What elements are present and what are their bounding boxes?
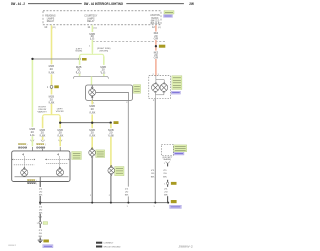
svg-text:1: 1	[127, 206, 128, 208]
bus junction dot lamp1	[91, 202, 93, 204]
svg-text:YL/BK: YL/BK	[39, 135, 46, 137]
svg-text:RIGHT: RIGHT	[39, 106, 47, 108]
svg-text:YL/BK: YL/BK	[108, 135, 115, 137]
svg-text:OR: OR	[154, 58, 159, 60]
right rear lamp dashed box	[161, 145, 173, 156]
svg-text:J988W-2: J988W-2	[8, 245, 17, 247]
svg-text:YL/BK: YL/BK	[48, 102, 55, 104]
svg-text:2: 2	[109, 195, 110, 197]
pin bracket above ground connector	[39, 216, 42, 218]
svg-text:1: 1	[154, 206, 155, 208]
legend row 2	[96, 246, 121, 249]
svg-text:M2B: M2B	[30, 129, 36, 131]
bus junction dot box ground	[127, 202, 129, 204]
svg-text:1: 1	[164, 163, 165, 165]
splice dot right end	[110, 122, 112, 124]
green link ref dome lamp	[172, 76, 182, 90]
dome lamp bulb left	[152, 84, 160, 92]
connector bar drop into lamp box	[91, 76, 93, 85]
green link ref left courtesy lamp	[96, 150, 105, 158]
junction block label READING LAMPS RELAY	[45, 15, 55, 24]
label below right rear lamp box	[163, 157, 174, 161]
green link ref top right	[164, 11, 174, 14]
svg-text:2W: 2W	[189, 2, 194, 6]
visor lamps labels above box cluster 2	[36, 143, 46, 150]
yellow branch wire left	[42, 117, 44, 140]
svg-text:SIDE): SIDE)	[75, 51, 82, 53]
wire label M2 20 OR upper	[154, 33, 160, 40]
svg-text:M2B: M2B	[100, 67, 106, 69]
svg-text:SPLICE GROUND: SPLICE GROUND	[104, 246, 122, 248]
branch label LEFT VISOR	[56, 109, 64, 114]
wire label M1 20 YL lower	[48, 96, 55, 104]
ground wire right rear lamp	[167, 163, 169, 202]
splice label S301	[114, 121, 119, 124]
svg-text:1: 1	[164, 184, 165, 186]
inline connector C310 on yellow wire	[47, 85, 59, 89]
wire label M2 20 OR lower	[154, 52, 160, 59]
wire M2B 20 YL lamp feed	[91, 100, 93, 149]
connector cup under yellow branch right	[59, 140, 62, 142]
wire label branch left	[39, 130, 46, 138]
svg-text:CONNECT: CONNECT	[104, 243, 115, 245]
svg-text:M2B: M2B	[89, 106, 95, 108]
wire label M2B 20 LG branch left	[76, 67, 82, 75]
svg-text:LG: LG	[90, 39, 95, 41]
svg-text:M2B: M2B	[108, 130, 114, 132]
svg-text:BASE): BASE)	[164, 158, 172, 161]
svg-text:M2B: M2B	[76, 67, 82, 69]
purple link ref at bus right end	[170, 205, 182, 208]
wire label M2B 20 YL lower	[89, 130, 96, 138]
ground label G301	[43, 240, 49, 243]
svg-text:VANITY: VANITY	[37, 111, 47, 114]
dome lamp bulb right	[160, 84, 168, 92]
svg-text:1: 1	[37, 223, 38, 225]
splice dot on dome feed	[155, 45, 157, 47]
svg-text:M1B: M1B	[40, 130, 46, 132]
green link ref right courtesy lamp	[115, 167, 124, 176]
splice dot branch right	[59, 122, 61, 124]
svg-text:YL/BK: YL/BK	[89, 112, 96, 114]
inline connector on ground wire	[37, 222, 48, 226]
splice label S300	[82, 58, 87, 61]
wire label Z1 20 BK right lower	[164, 189, 169, 197]
svg-text:(C2): (C2)	[93, 27, 97, 29]
ground symbol G301	[38, 240, 43, 243]
ground bus	[40, 202, 168, 204]
svg-text:M2B: M2B	[89, 130, 95, 132]
LG split bracket	[80, 53, 104, 57]
splice dot left	[31, 58, 33, 60]
svg-text:(C2): (C2)	[158, 27, 161, 29]
courtesy lamp box	[86, 85, 133, 100]
svg-text:LG: LG	[30, 135, 35, 137]
svg-text:2: 2	[76, 72, 77, 74]
internal dashed circuit right	[46, 156, 68, 168]
wire label M1 20 YL upper	[48, 66, 55, 75]
svg-text:LG: LG	[101, 73, 106, 75]
splice dot right	[78, 58, 80, 60]
wire M2 20 OR dome feed	[155, 25, 157, 75]
arrow left cell inner	[34, 159, 35, 161]
svg-text:YL/BK: YL/BK	[48, 72, 55, 74]
wire M2B 20 LG feed from pin 11	[91, 25, 93, 53]
wire label Z1 20 BK below bus	[39, 206, 44, 214]
green link ref right rear lamp	[174, 145, 187, 152]
pin bracket below right rear box	[166, 161, 170, 163]
wire label M2B 20 LG feed	[89, 34, 95, 41]
svg-text:(8W-12-8): (8W-12-8)	[150, 22, 160, 25]
purple link ref right rear lamp	[174, 152, 184, 155]
junction block label right JUNCTION BLOCK	[150, 14, 160, 25]
wire M1 20 YL yellow feed	[51, 25, 53, 114]
svg-text:VISOR/: VISOR/	[56, 111, 64, 113]
wire label Z1 20 BK mid	[125, 188, 130, 196]
bus junction dot dome	[154, 202, 156, 204]
legend row 1	[96, 242, 114, 245]
visor lamps labels above box cluster 1	[18, 143, 28, 150]
wire label Z1 20 BK above ground	[39, 230, 44, 238]
bus end junction	[167, 202, 169, 204]
svg-text:9999: 9999	[18, 147, 28, 150]
dome lamp internal wiring	[155, 76, 164, 99]
arrow left	[12, 159, 13, 161]
junction block label COURTESY LAMPS RELAY	[84, 15, 97, 24]
inline connector on right ground	[164, 182, 176, 186]
wire label M2B 20 YL upper	[89, 106, 96, 114]
svg-text:YL/BK: YL/BK	[89, 135, 96, 137]
courtesy lamp connector bracket	[73, 76, 108, 78]
svg-text:9999: 9999	[36, 143, 45, 146]
svg-text:M1B: M1B	[49, 66, 55, 68]
connector side label RIGHT SHOWN	[97, 48, 111, 53]
svg-text:1: 1	[100, 72, 101, 74]
internal ground drop	[39, 177, 41, 182]
dome lamp dashed box	[149, 76, 171, 99]
purple link ref dome lamp	[171, 91, 180, 94]
svg-text:J988W-2: J988W-2	[178, 245, 194, 248]
wire M2B 20 YL right lamp feed	[110, 124, 112, 168]
bus junction dot left	[39, 201, 41, 203]
wire label branch right	[57, 130, 64, 138]
inline connector dashed line C100	[93, 41, 166, 43]
connector side label LEFT	[75, 48, 82, 52]
splice dot lamp feed	[91, 122, 93, 124]
header rule right	[126, 3, 184, 5]
bus junction dot lamp2	[110, 202, 112, 204]
svg-text:OR: OR	[154, 38, 159, 40]
LG branch left to splice	[79, 56, 81, 76]
purple link ref top right	[164, 15, 173, 18]
connector cup under LG wire	[31, 140, 34, 142]
wire M2B 20 LG left drop	[31, 60, 33, 146]
purple link ref ground	[43, 245, 53, 248]
visor lamp bulb left	[21, 168, 28, 177]
green link ref courtesy lamp	[133, 85, 140, 94]
wire label Z1 20 BK left upper	[39, 189, 44, 197]
ground wire from right courtesy lamp	[110, 176, 112, 203]
wire label Z1 20 BK dome	[151, 170, 156, 178]
junction block dashed box	[43, 11, 161, 25]
internal ground bar	[15, 176, 69, 178]
svg-text:M1B: M1B	[58, 130, 64, 132]
ground wire from courtesy lamp box right	[127, 100, 129, 202]
splice label on dome feed	[159, 45, 165, 48]
LG branch right	[103, 56, 105, 76]
wire label right lamp feed	[108, 130, 115, 138]
svg-text:(SHOWN): (SHOWN)	[100, 51, 109, 53]
green link ref visor lamp box	[72, 152, 82, 160]
arrow right cell inner	[45, 159, 46, 161]
arrow right	[68, 159, 69, 161]
svg-text:(C2): (C2)	[53, 27, 56, 29]
svg-text:8W - 44 - 2: 8W - 44 - 2	[11, 2, 25, 6]
svg-text:RELAY: RELAY	[47, 20, 55, 23]
svg-text:2: 2	[90, 195, 91, 197]
svg-text:9999: 9999	[36, 147, 46, 150]
svg-text:M1B: M1B	[49, 96, 55, 98]
labels below visor box	[27, 179, 37, 185]
visor vanity lamp box	[12, 151, 70, 182]
svg-text:LG: LG	[76, 73, 81, 75]
ground wire from dome lamp	[154, 99, 156, 203]
left courtesy lamp	[89, 148, 96, 158]
wire label M2B 20 LG left	[30, 129, 36, 137]
pin ticks into visor box	[32, 147, 60, 151]
svg-text:8W - 44 INTERIOR LIGHTING: 8W - 44 INTERIOR LIGHTING	[84, 2, 123, 6]
svg-text:LEFT: LEFT	[57, 109, 64, 111]
wire label M2B 20 LG branch right	[100, 67, 106, 75]
header rule left	[28, 3, 82, 5]
ground wire Z1 from visor box	[39, 182, 41, 240]
svg-text:RELAY: RELAY	[87, 20, 95, 23]
splice label at bus right end	[171, 200, 177, 203]
svg-text:YL/BK: YL/BK	[57, 135, 64, 137]
splice line S300 gray	[33, 58, 80, 60]
visor lamp bulb right	[56, 167, 63, 176]
branch label RIGHT VISOR VANITY	[37, 106, 47, 113]
courtesy lamp bulb symbol	[89, 85, 129, 100]
yellow wire split bracket	[43, 113, 61, 117]
connector cup under yellow branch left	[41, 140, 44, 142]
ground wire from left courtesy lamp	[91, 158, 93, 203]
yellow branch wire right	[59, 117, 61, 146]
right courtesy lamp	[108, 165, 115, 175]
internal dashed circuit left	[14, 156, 34, 168]
splice line S301	[60, 122, 110, 124]
dome lamp terminal marks	[154, 82, 165, 93]
wire label Z1 20 BK right upper	[163, 170, 168, 178]
